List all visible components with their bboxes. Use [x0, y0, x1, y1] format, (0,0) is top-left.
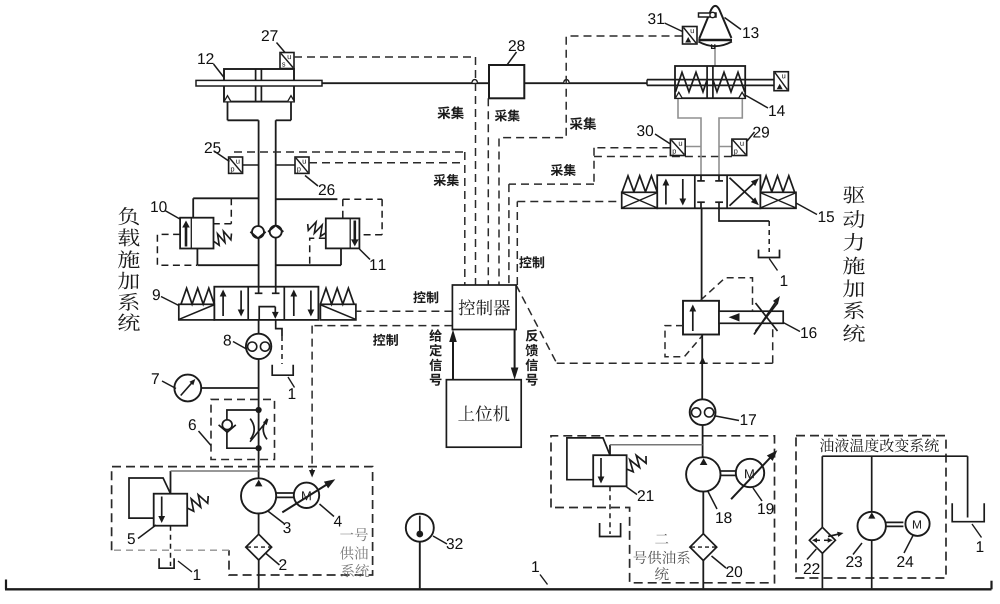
pilot lines valve 10: [230, 198, 232, 223]
pump 23 with motor 24: [871, 456, 873, 512]
acceleration sensor 31: [683, 27, 698, 45]
cylinder 14 (spring-centered): [675, 66, 745, 98]
pressure sensor 30: [670, 139, 685, 155]
wire: A-line cylinder12 left port down to valve 9: [227, 102, 229, 121]
piston rod 12: [196, 80, 322, 86]
relief valve 11: [276, 198, 338, 200]
acquisition dashed: sensor 27 to controller: [294, 56, 476, 58]
relief valve 5: [154, 494, 188, 526]
label 6: [189, 419, 196, 430]
给定信号 label: [429, 329, 442, 341]
cylinder 14 port lines (gray): [678, 98, 701, 175]
acquisition dashed: sensors 29/30 to controller: [594, 147, 670, 149]
internal supply line: [822, 455, 967, 457]
控制 label C2: [519, 256, 531, 268]
springs inside cylinder 14: [676, 72, 708, 92]
acquisition dashed: sensor 28 to controller: [487, 98, 489, 285]
sensor 26 (pressure sensor, port B): [276, 164, 295, 166]
piston 14: [706, 66, 708, 98]
wire flow meter 17 to pump 18: [702, 425, 704, 458]
label 11: [370, 259, 377, 270]
block 6 (check valve + variable throttle): [211, 399, 275, 459]
control dashed: controller to valve 16 (feedback path): [516, 285, 557, 363]
采集 label A4: [434, 174, 446, 186]
control dashed: controller to valve 15: [516, 202, 518, 286]
pilot dashed valve 16 upper: [701, 278, 753, 312]
label 油液温度改变系统: [820, 438, 834, 452]
system label 驱动力施加系统: [843, 186, 864, 203]
relief valve 21: [593, 455, 626, 486]
采集 label A2: [495, 110, 507, 122]
valve 5 drain + tank 1: [170, 526, 172, 566]
wire flow meter 8 down through block 6 to pump 3: [258, 359, 260, 478]
given signal arrow up: [452, 341, 454, 380]
tank return line (bottom bus): [5, 580, 7, 590]
label 26: [319, 184, 326, 195]
feedback signal arrow down: [514, 330, 516, 369]
wire valve9 A-port down to flow meter 8: [258, 320, 260, 334]
control dashed: controller to valve 9: [356, 310, 453, 312]
host computer box 上位机: [446, 380, 521, 448]
label 21: [638, 490, 645, 501]
label 4: [334, 516, 342, 527]
proportional valve 15 (4/3): [657, 175, 760, 208]
label 12: [198, 53, 205, 64]
controller box 控制器: [452, 285, 516, 330]
force sensor at rod end (u): [774, 72, 788, 91]
valve 9 right solenoid + spring: [320, 304, 356, 320]
filter 2: [258, 514, 260, 535]
valve 21 drain tank: [609, 486, 611, 534]
port triangles 14: [676, 92, 682, 98]
label 14: [769, 105, 776, 116]
label 7: [152, 373, 159, 384]
pressure gauge 7: [174, 375, 201, 402]
heater/cooler 22: [821, 456, 823, 527]
pump 18 with motor 19: [686, 457, 720, 491]
relief valve 10: [192, 198, 194, 217]
piston rod line right (28 to cylinder 14): [524, 82, 647, 84]
weight 13 (bell mass): [714, 47, 716, 66]
label 13: [743, 27, 750, 38]
label 一号供油系统: [340, 533, 353, 535]
label 16: [801, 327, 808, 338]
valve 9 left solenoid + spring: [179, 304, 215, 320]
No.1 supply system dashed box: [112, 467, 373, 575]
label 1 bottom center: [532, 561, 539, 572]
pump 3 with motor 4: [241, 478, 276, 513]
label 25: [205, 142, 212, 153]
valve 15 right solenoid + spring: [760, 176, 794, 192]
tank 1 (valve 9 drain): [272, 365, 293, 376]
采集 label A3: [570, 117, 583, 130]
flow meter 8: [246, 334, 271, 359]
label 二号供油系统: [655, 534, 668, 543]
oil temperature change system box: [796, 436, 946, 578]
flow meter 17: [690, 399, 716, 425]
port triangles cylinder 12: [224, 96, 230, 102]
force sensor 28: [489, 65, 524, 98]
采集 label A1: [437, 106, 450, 119]
proportional valve 9 (4/3): [214, 287, 318, 320]
label 9: [153, 289, 160, 300]
hook bar 13: [699, 13, 717, 17]
pilot dashed valve 16 lower-left: [665, 326, 703, 357]
check valve pair (anti-cavitation): [252, 226, 264, 238]
wire valve16 down to flow meter 17: [701, 335, 703, 400]
sensor 25 (pressure sensor, port A): [243, 164, 259, 166]
label 8: [224, 335, 231, 346]
piston rod line left (cyl 12 to force sensor 28): [322, 82, 489, 84]
suction line to pump 3: [171, 470, 259, 472]
cylinder 12 (double-rod hydraulic cylinder): [224, 69, 294, 102]
valve9 B-port drain to tank 1: [276, 320, 282, 336]
控制 label C1: [413, 291, 425, 303]
pressure sensor 29: [732, 139, 747, 155]
label 3: [283, 522, 290, 533]
wire: B-line cylinder12 right port down: [290, 102, 292, 121]
label 15: [819, 211, 826, 222]
控制 label C3: [373, 334, 385, 346]
pilot lines valve 11: [343, 198, 382, 200]
label 27: [262, 30, 269, 41]
label 10: [151, 201, 158, 212]
bell notch: [712, 44, 715, 48]
thermometer 32: [406, 514, 434, 542]
system label 负载施加系统: [118, 207, 138, 225]
rod bar 14: [647, 79, 774, 81]
control dashed: controller to pump 3 motor: [312, 325, 452, 327]
valve 15 left solenoid + spring: [622, 176, 657, 192]
tank 1 (oil temp system): [952, 503, 984, 521]
采集 label A5: [551, 164, 563, 176]
反馈信号 label: [526, 329, 538, 341]
throttle arcs: [250, 419, 254, 440]
filter 20: [702, 492, 704, 534]
No.2 supply system dashed box: [551, 436, 775, 583]
acquisition dashed: sensors 25/26 to controller: [234, 151, 465, 153]
acquisition dashed: sensor 31 to controller: [499, 36, 683, 285]
valve15 B-port drain to tank: [719, 208, 769, 221]
label 5: [128, 533, 135, 544]
proportional relief valve 16: [683, 301, 719, 335]
sensor 27 (displacement sensor on cylinder 12): [280, 53, 294, 69]
wire valve15 A-port down to valve 16: [701, 208, 703, 300]
